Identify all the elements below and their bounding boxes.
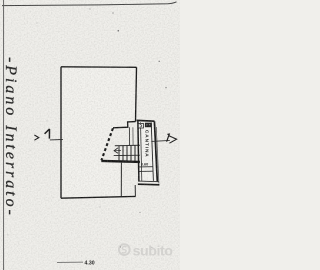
stair arrow (115, 150, 122, 152)
section arrow left (34, 135, 38, 140)
shaft wall a (128, 127, 130, 145)
room interior fill (61, 67, 137, 198)
scale bar (57, 261, 83, 263)
cantina inner left line (141, 122, 142, 180)
shaft wall b (132, 127, 134, 145)
wall bottom (61, 196, 136, 198)
section arrow right (169, 136, 177, 144)
interior wall x135 (134, 185, 136, 196)
cantina shelf line 1 (139, 166, 153, 168)
cantina inner bottom line (139, 180, 159, 183)
section letter A right (167, 134, 170, 142)
cantina interior fill (139, 122, 157, 181)
svg-text:subito: subito (133, 243, 174, 259)
stair top line (115, 144, 140, 146)
stair bottom wall (101, 161, 140, 162)
cantina bottom wall (138, 183, 160, 186)
notch step (113, 122, 136, 128)
stair treads (119, 145, 135, 161)
wall left (60, 67, 62, 198)
door box right (dark) (145, 123, 152, 128)
room outline (61, 67, 137, 198)
wall right (136, 67, 137, 121)
stair mid line (114, 154, 140, 156)
cantina inner right line (151, 122, 153, 180)
dashed overhead line (101, 128, 113, 160)
left border line (3, 0, 5, 270)
section line right (151, 140, 170, 141)
wall top (61, 66, 137, 69)
scan specks (8, 9, 167, 249)
top border line (2, 2, 177, 6)
cantina left wall (138, 121, 139, 182)
cantina right wall (154, 121, 157, 181)
cantina shelf line 2 (139, 170, 153, 172)
cantina block top wall (137, 119, 155, 122)
grain overlay (0, 0, 180, 270)
cantina outer right line (156, 127, 159, 184)
watermark subito logo (119, 243, 173, 259)
section letter A left (45, 129, 50, 139)
door box left (138, 123, 143, 128)
scan background (0, 0, 180, 270)
section line left (50, 139, 63, 141)
interior wall x121 (120, 163, 122, 197)
